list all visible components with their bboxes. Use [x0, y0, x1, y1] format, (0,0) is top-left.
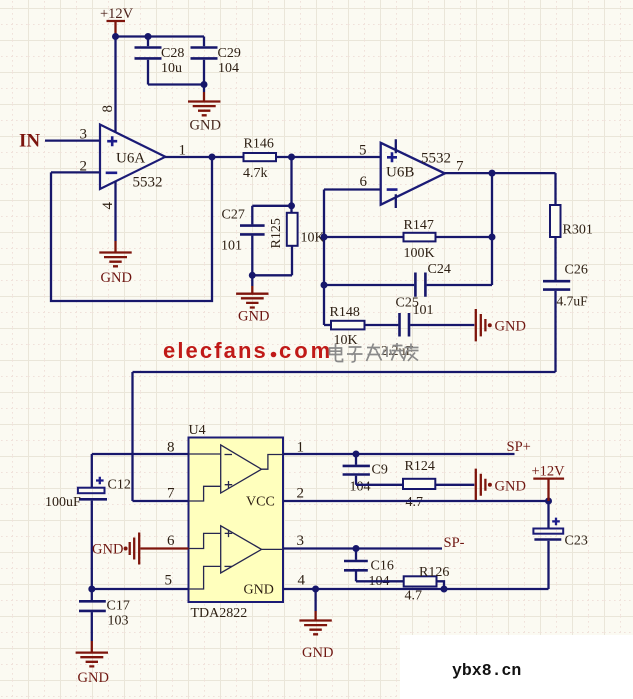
power +12V (right) — [532, 464, 566, 502]
svg-text:com: com — [279, 338, 333, 363]
svg-text:7: 7 — [167, 486, 175, 502]
svg-text:5532: 5532 — [421, 151, 451, 167]
svg-text:GND: GND — [495, 319, 526, 335]
svg-text:4.7: 4.7 — [405, 589, 423, 604]
svg-text:C9: C9 — [372, 463, 388, 478]
svg-text:U4: U4 — [189, 423, 206, 438]
node pin7 / feedback — [489, 170, 496, 177]
resistor R148 — [324, 305, 398, 348]
svg-text:VCC: VCC — [246, 495, 275, 510]
capacitor C17 — [79, 589, 130, 653]
pin 4 stem — [114, 181, 116, 241]
svg-text:6: 6 — [167, 533, 175, 549]
svg-text:C26: C26 — [565, 263, 588, 278]
svg-text:4.7: 4.7 — [406, 495, 424, 510]
node +12V / C23 — [545, 498, 552, 505]
svg-text:R301: R301 — [563, 223, 593, 238]
resistor R125 — [269, 213, 325, 275]
wire pin2 U4 — [283, 500, 549, 502]
svg-text:R147: R147 — [404, 218, 434, 233]
svg-text:C29: C29 — [218, 46, 241, 61]
svg-text:5: 5 — [359, 143, 367, 159]
wire C12 riser — [91, 454, 93, 487]
capacitor C9 — [343, 454, 388, 495]
svg-text:5532: 5532 — [133, 175, 163, 191]
pin 8 stem — [114, 37, 116, 133]
svg-text:C24: C24 — [428, 262, 451, 277]
wire +12V rail — [116, 35, 205, 37]
wire U6A output — [165, 156, 244, 158]
node R147 left — [321, 234, 328, 241]
svg-text:GND: GND — [495, 479, 526, 495]
svg-text:4: 4 — [298, 573, 306, 589]
capacitor C28 — [135, 37, 185, 85]
capacitor C27 — [221, 206, 265, 275]
node GND branch — [312, 586, 319, 593]
node C29 / GND — [201, 81, 208, 88]
wire R124 to ground — [435, 484, 474, 486]
svg-text:4: 4 — [100, 202, 116, 210]
svg-text:IN: IN — [19, 131, 40, 152]
wire feedback vertical left — [323, 190, 325, 326]
ground GND (under C29) — [188, 102, 221, 134]
svg-text:1: 1 — [179, 143, 187, 159]
svg-text:C23: C23 — [565, 534, 588, 549]
node R146 / R125 — [288, 154, 295, 161]
svg-text:SP-: SP- — [444, 535, 465, 551]
svg-text:7: 7 — [456, 159, 464, 175]
node +12V / pin8 — [112, 33, 119, 40]
op-amp U6A — [100, 125, 165, 191]
watermark chinese characters — [330, 343, 419, 362]
node R125 / C27 — [288, 202, 295, 209]
wire pin1 / SP+ — [283, 453, 515, 455]
IC U4 TDA2822 body — [189, 438, 284, 603]
svg-text:3: 3 — [297, 533, 305, 549]
svg-text:R148: R148 — [330, 305, 360, 320]
svg-text:R146: R146 — [244, 137, 274, 152]
svg-text:3: 3 — [80, 127, 88, 143]
capacitor C29 — [191, 37, 241, 101]
svg-text:SP+: SP+ — [507, 439, 531, 455]
svg-text:ybx8.cn: ybx8.cn — [452, 661, 521, 680]
svg-text:C16: C16 — [371, 559, 394, 574]
wire pin3 / SP- — [283, 547, 442, 549]
svg-text:GND: GND — [190, 118, 221, 134]
svg-text:100K: 100K — [404, 246, 435, 261]
capacitor C24 — [324, 262, 492, 318]
svg-text:GND: GND — [92, 542, 123, 558]
node pin5/C12/C17 — [88, 586, 95, 593]
svg-text:GND: GND — [238, 309, 269, 325]
svg-text:C12: C12 — [108, 478, 131, 493]
svg-text:GND: GND — [101, 270, 132, 286]
svg-text:2: 2 — [297, 486, 305, 502]
svg-text:103: 103 — [108, 614, 129, 629]
node C27/R125/GND — [249, 272, 256, 279]
svg-text:GND: GND — [244, 583, 274, 598]
svg-text:2: 2 — [80, 158, 88, 174]
svg-text:R125: R125 — [269, 218, 284, 248]
node R126 / C23 return — [441, 586, 448, 593]
capacitor C12 (electrolytic) — [45, 477, 131, 589]
wire R146 to U6B pin5 — [276, 156, 381, 158]
capacitor C16 — [344, 549, 394, 590]
svg-text:101: 101 — [221, 239, 242, 254]
svg-text:4.7k: 4.7k — [243, 166, 268, 181]
wire pin7 U4 — [133, 500, 189, 502]
wire pin8 U4 — [92, 453, 189, 455]
capacitor C23 (electrolytic) — [533, 501, 587, 589]
svg-text:+12V: +12V — [532, 464, 566, 480]
node C24 left — [321, 282, 328, 289]
svg-text:104: 104 — [218, 61, 239, 76]
svg-text:4.7uF: 4.7uF — [557, 294, 589, 309]
wire feedback vertical right — [491, 173, 493, 285]
wire pin4 U4 — [283, 588, 549, 590]
svg-text:elecfans: elecfans — [163, 338, 268, 363]
wire vertical to U4 pin7 — [131, 372, 133, 501]
svg-text:U6A: U6A — [116, 151, 145, 167]
wire pin2 — [51, 171, 100, 173]
capacitor C25 — [381, 296, 419, 360]
node R147 right — [489, 234, 496, 241]
wire pin7 output — [445, 172, 556, 174]
power +12V (top) — [100, 6, 134, 37]
ground GND (under pin4) — [299, 589, 333, 661]
svg-text:C28: C28 — [161, 46, 184, 61]
resistor R301 — [550, 173, 593, 280]
feedback loop wire U6A — [51, 157, 212, 301]
ground GND (under U6A) — [99, 253, 132, 287]
svg-text:TDA2822: TDA2822 — [191, 606, 248, 621]
svg-text:100uF: 100uF — [45, 495, 81, 510]
node output/feedback — [209, 154, 216, 161]
site watermark box — [400, 635, 633, 699]
svg-text:C25: C25 — [396, 296, 419, 311]
node C28 top — [145, 33, 152, 40]
watermark elecfans.com — [163, 338, 333, 363]
wire R125/C27 bottom — [252, 274, 292, 276]
op-amp U6B — [381, 139, 451, 208]
svg-text:5: 5 — [165, 573, 173, 589]
svg-text:6: 6 — [360, 174, 368, 190]
wire R125 branch — [290, 157, 292, 213]
ground GND (speaker ref, left of pin6) — [92, 533, 189, 565]
svg-text:R126: R126 — [419, 565, 449, 580]
op-amp A inside U4 — [189, 445, 284, 501]
svg-text:GND: GND — [78, 670, 109, 686]
wire pin6 U6B — [324, 188, 381, 190]
wire cap bottoms — [148, 83, 204, 85]
ground GND (right of C25, rotated) — [476, 309, 526, 341]
node C16 top — [353, 545, 360, 552]
ground GND (right of R124, rotated) — [476, 469, 526, 501]
svg-text:104: 104 — [350, 480, 371, 495]
node C9 top — [353, 451, 360, 458]
resistor R147 — [324, 218, 492, 261]
resistor R146 — [243, 137, 276, 182]
ground GND (bottom left) — [76, 653, 109, 686]
resistor R126 — [356, 565, 449, 604]
wire C27 branch — [252, 205, 291, 207]
svg-text:10u: 10u — [161, 61, 182, 76]
resistor R124 — [356, 459, 435, 510]
svg-text:10K: 10K — [334, 333, 358, 348]
capacitor C26 — [543, 263, 588, 373]
svg-text:C17: C17 — [107, 599, 130, 614]
wire C25 to ground — [410, 324, 474, 326]
svg-text:GND: GND — [302, 645, 333, 661]
wire long horizontal net — [133, 371, 556, 373]
svg-text:C27: C27 — [222, 208, 245, 223]
svg-text:+12V: +12V — [100, 6, 134, 22]
wire pin3 — [45, 139, 100, 141]
svg-text:U6B: U6B — [386, 165, 414, 181]
wire pin5 U4 — [92, 588, 189, 590]
svg-text:R124: R124 — [405, 459, 435, 474]
op-amp B inside U4 — [189, 526, 284, 589]
ground GND (under C27) — [236, 275, 269, 324]
svg-text:8: 8 — [100, 105, 116, 113]
